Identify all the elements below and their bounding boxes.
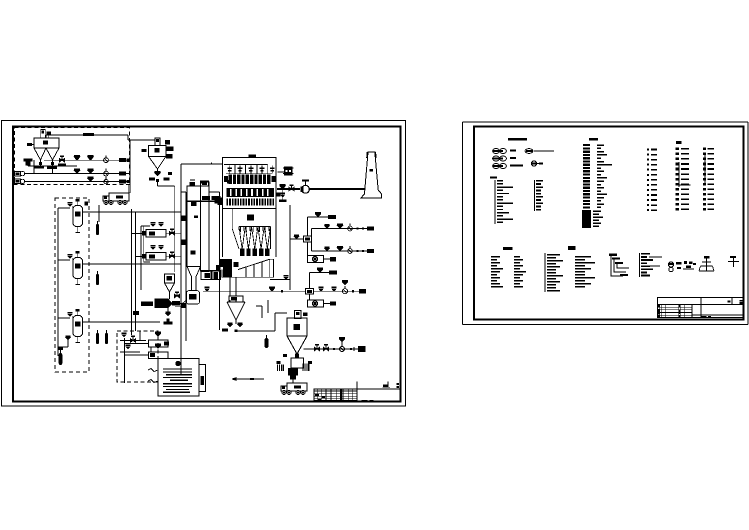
blind cap line3 [119, 180, 126, 184]
bin B1 vent filter [41, 130, 46, 139]
valve TK-bottom [65, 335, 70, 337]
wire (CY1 drop) [157, 181, 159, 187]
valve VA5 [337, 246, 343, 248]
valve SL2 [323, 347, 326, 351]
valve V8 [87, 176, 93, 178]
notes box NB1 emblem [176, 361, 180, 365]
gate a2 [362, 227, 364, 229]
conveying line 1 [33, 160, 35, 174]
valve VA2 [324, 224, 329, 226]
legend block B [583, 144, 590, 146]
legend symbol column D [676, 148, 680, 151]
legend title 3 [503, 247, 513, 250]
column AB1 cone [187, 267, 192, 291]
column AB1 drain [182, 300, 187, 307]
gate b0 [281, 290, 283, 292]
legend list F2 [514, 256, 520, 258]
wire (CY2 out) [236, 330, 275, 332]
wire (top duct y164) [181, 163, 223, 165]
wire (top transport header) [46, 134, 128, 136]
rotary feeder RB1 [342, 289, 347, 294]
valve V2 [74, 155, 80, 157]
terminal (VA up) [328, 215, 336, 219]
sample pot [58, 347, 64, 350]
wire (bin outlet header) [28, 165, 77, 167]
legend title D [676, 141, 682, 144]
legend list I [639, 253, 641, 277]
silo lower housing [291, 358, 304, 368]
terminal (VB right) [359, 289, 366, 293]
eductor EJ1 [141, 302, 153, 307]
wire (main riser x181) [180, 164, 182, 374]
wire (bypass channel) [208, 192, 210, 271]
valve VA0 [294, 234, 299, 236]
valve VB3 [331, 286, 336, 288]
wire (VA branch 2) [312, 250, 369, 252]
bin B1 inlet fitting [27, 143, 32, 146]
column AB1 side nozzle 2 [182, 240, 187, 245]
valve SL1 [314, 347, 317, 351]
terminal (VA branch1) [367, 226, 374, 230]
vessel TK3 [73, 316, 83, 337]
truck T1 [109, 193, 129, 201]
legend symbol column C [647, 149, 649, 151]
legend sheet outer border [462, 122, 464, 325]
bag filter BF1 hoppers [239, 226, 271, 228]
silo SI1 vent [295, 311, 302, 319]
wire (PA out) [324, 258, 331, 260]
wire (truck riser pair) [128, 185, 130, 193]
legend list F1 [491, 256, 500, 258]
arrow line (drain) [232, 378, 264, 380]
drawing sheet outer border (left panel) [2, 121, 406, 407]
pump box PA [308, 256, 324, 263]
truck T2 [287, 383, 307, 391]
wire (skid header) [57, 208, 59, 356]
silo side fittings [277, 361, 281, 364]
skid box cap [85, 202, 88, 206]
bag filter BF1 pulse valve row [226, 173, 272, 175]
valve cluster under bin B1 [24, 159, 33, 162]
rotary RSL [340, 347, 345, 352]
valve V5 [74, 168, 80, 170]
blind cap line1 [119, 158, 126, 162]
valve V1 on line 1 [59, 158, 62, 162]
valve V6 [87, 168, 93, 170]
bypass branch under damper [282, 189, 284, 200]
valve SL3 fun [339, 337, 345, 339]
conveyor drive cluster [220, 259, 232, 267]
dashed enclosure (injection skid) [55, 198, 89, 372]
column AB1 side nozzle 1 [182, 216, 187, 221]
feeder FD2 [146, 253, 166, 261]
column AB1 internals [191, 201, 197, 206]
vessel TK2 [73, 258, 83, 279]
column AB1 top fittings [190, 182, 195, 186]
bag filter BF1 compartment dividers [224, 164, 268, 166]
legend list A [490, 177, 497, 179]
valve VA3 [337, 223, 343, 225]
bag filter BF1 clean plenum band [227, 188, 275, 197]
legend list G2 [575, 256, 591, 258]
legend bracket H [611, 256, 623, 276]
valve VB-l2 [269, 286, 275, 288]
wire (line 1) [44, 159, 130, 161]
bin B1 level switch [47, 132, 52, 136]
wire (fan to stack) [309, 188, 365, 190]
bag filter inlet flange [218, 198, 223, 206]
silo SI1 body [287, 318, 307, 336]
bag filter BF1 casing [223, 158, 277, 209]
terminal (PB) [330, 301, 336, 305]
wire (VA down) [307, 242, 309, 255]
screw conveyor SC1 [222, 259, 274, 277]
valve VA4 [324, 246, 329, 248]
valve V9 rotary [104, 179, 108, 183]
dashed enclosure (dosing) [117, 331, 158, 382]
riser valve [133, 311, 139, 315]
cyclone CY1 side nozzles [166, 147, 174, 152]
wire (eductor out) [180, 303, 186, 305]
thermowell t2 [96, 274, 99, 285]
silo discharge valve [295, 354, 299, 358]
thermowell t3 [96, 333, 99, 344]
gate sl2 [350, 348, 352, 350]
blind cap line2 [119, 172, 126, 176]
valve V7 rotary [104, 171, 109, 176]
cyclone CY1 cone [149, 156, 167, 169]
valve VB1 [317, 268, 323, 270]
bin B1 hopper left [34, 147, 46, 149]
valve VB-l1 [204, 286, 209, 288]
valve VB2 [318, 286, 323, 288]
drawing sheet inner border (left panel) [13, 127, 401, 402]
gate sl1 [333, 348, 335, 350]
bag filter BF1 mid section glyph [247, 215, 254, 221]
label (area title) [83, 133, 94, 136]
terminal (PA) [330, 257, 336, 261]
legend tree symbol [706, 256, 708, 271]
stack ST1 [361, 152, 382, 198]
wire (VA manifold) [311, 229, 313, 252]
legend symbol circle-line [531, 161, 536, 166]
wire (silo to line) [300, 348, 317, 350]
valve V3 [87, 155, 93, 157]
aeration pads [277, 365, 278, 372]
terminal (VA branch2) [367, 249, 374, 253]
wire (spout to truck) [292, 380, 294, 384]
valve VA1 [315, 212, 321, 214]
wire (TK2 supply) [83, 263, 182, 265]
mix box M2 [149, 352, 169, 359]
funnel FN1 [165, 274, 175, 283]
gate b1 [352, 290, 354, 292]
bin B1 body [34, 138, 59, 148]
legend title 2 [589, 138, 598, 141]
legend sheet inner border [474, 127, 744, 320]
zigzag feed left [148, 369, 158, 372]
vessel TK1 [73, 206, 83, 227]
dashed enclosure (lime storage area) [15, 128, 130, 185]
level instrument [168, 172, 172, 175]
wire (pump P1 discharge) [25, 173, 130, 175]
wire (loadout line) [304, 348, 361, 350]
wire (conveyor drops) [229, 277, 231, 296]
gate a3 [356, 250, 358, 252]
gate a4 [362, 250, 364, 252]
wire (VA up branch) [307, 217, 309, 236]
legend sym J1 [668, 262, 673, 267]
dosing valves [122, 332, 127, 334]
wire (clean gas duct) [277, 188, 300, 190]
notes box NB1 text [163, 369, 192, 370]
notes box NB1 outline [158, 359, 199, 397]
valve V4 rotary [104, 158, 109, 163]
wire (bagfilter main inlet) [186, 200, 223, 202]
junction box VB [306, 289, 314, 295]
wire (PB out) [324, 303, 331, 305]
wire (pump P2 discharge) [25, 181, 130, 183]
damper D1 [280, 184, 286, 186]
cap (loadout) [358, 346, 366, 352]
rotary feeder RA2 [348, 249, 353, 254]
cyclone CY1 vent [155, 138, 160, 146]
bin B1 hopper right [46, 147, 59, 149]
wire (TK3 supply) [83, 321, 161, 323]
legend list A2 [534, 180, 536, 211]
wire (conveyor to VB) [270, 279, 290, 281]
terminal (VB up) [329, 270, 337, 274]
silo SI1 feed lines [261, 306, 263, 318]
expansion joint [284, 167, 293, 176]
column AB1 body [187, 186, 201, 267]
second column HX1 [201, 182, 210, 271]
mix box M1 [149, 340, 169, 347]
wire (feeder risers) [130, 209, 132, 335]
bag filter BF1 label [249, 154, 257, 157]
wire (VA branch 1) [312, 228, 369, 230]
pump P1 [15, 171, 21, 176]
cyclone CY2 valves [235, 320, 237, 324]
hose station capsule [265, 338, 269, 348]
discharge spout [288, 368, 298, 376]
pump box PB [308, 300, 324, 307]
bag filter BF1 bag comb [227, 198, 229, 205]
thermowell t1 [96, 224, 99, 235]
wire (mix piping) [124, 338, 126, 383]
wire (drops to cyclone) [229, 300, 231, 302]
pump P2 [15, 179, 21, 184]
wire (VB down) [309, 294, 311, 300]
title block (left sheet) [314, 389, 401, 401]
wire (VB up branch) [309, 273, 311, 289]
legend list G1 [544, 253, 546, 292]
wire (VA left) [290, 238, 304, 240]
wire (riser x130) [129, 140, 131, 193]
bag filter left flange [227, 180, 230, 183]
thermowell t4 [105, 333, 108, 344]
legend sym J2 [684, 261, 687, 264]
feeder FD1 [146, 230, 166, 238]
legend title 4 [568, 246, 576, 250]
legend pump symbols [493, 148, 500, 153]
column side boxes [201, 271, 211, 280]
legend title 1 [508, 138, 527, 141]
valve under CY1 [157, 169, 159, 171]
legend symbol column E [703, 148, 706, 151]
legend title block [657, 297, 743, 317]
wire (TK1 supply) [83, 211, 182, 213]
legend symbol oval-line [525, 149, 533, 154]
legend plus symbol [733, 257, 735, 267]
wire (truck to skid) [98, 205, 100, 222]
ID fan F1 [302, 185, 310, 193]
silo SI1 cone [287, 336, 307, 354]
wire (funnel drop line) [174, 186, 176, 272]
wire (main line y291) [203, 290, 306, 292]
bag filter BF1 hopper valves [240, 249, 244, 257]
cyclone CY1 body [149, 146, 167, 157]
rotary feeder RA1 [348, 226, 353, 231]
rev marks [383, 384, 388, 387]
eductor tail valves [167, 308, 169, 313]
wire (main riser x186) [185, 192, 187, 341]
gate a1 [356, 227, 358, 229]
column AB1 bottom vessel [187, 291, 200, 305]
junction box VA [304, 236, 312, 242]
cyclone CY2 [227, 301, 245, 303]
wire (VB right) [314, 290, 362, 292]
